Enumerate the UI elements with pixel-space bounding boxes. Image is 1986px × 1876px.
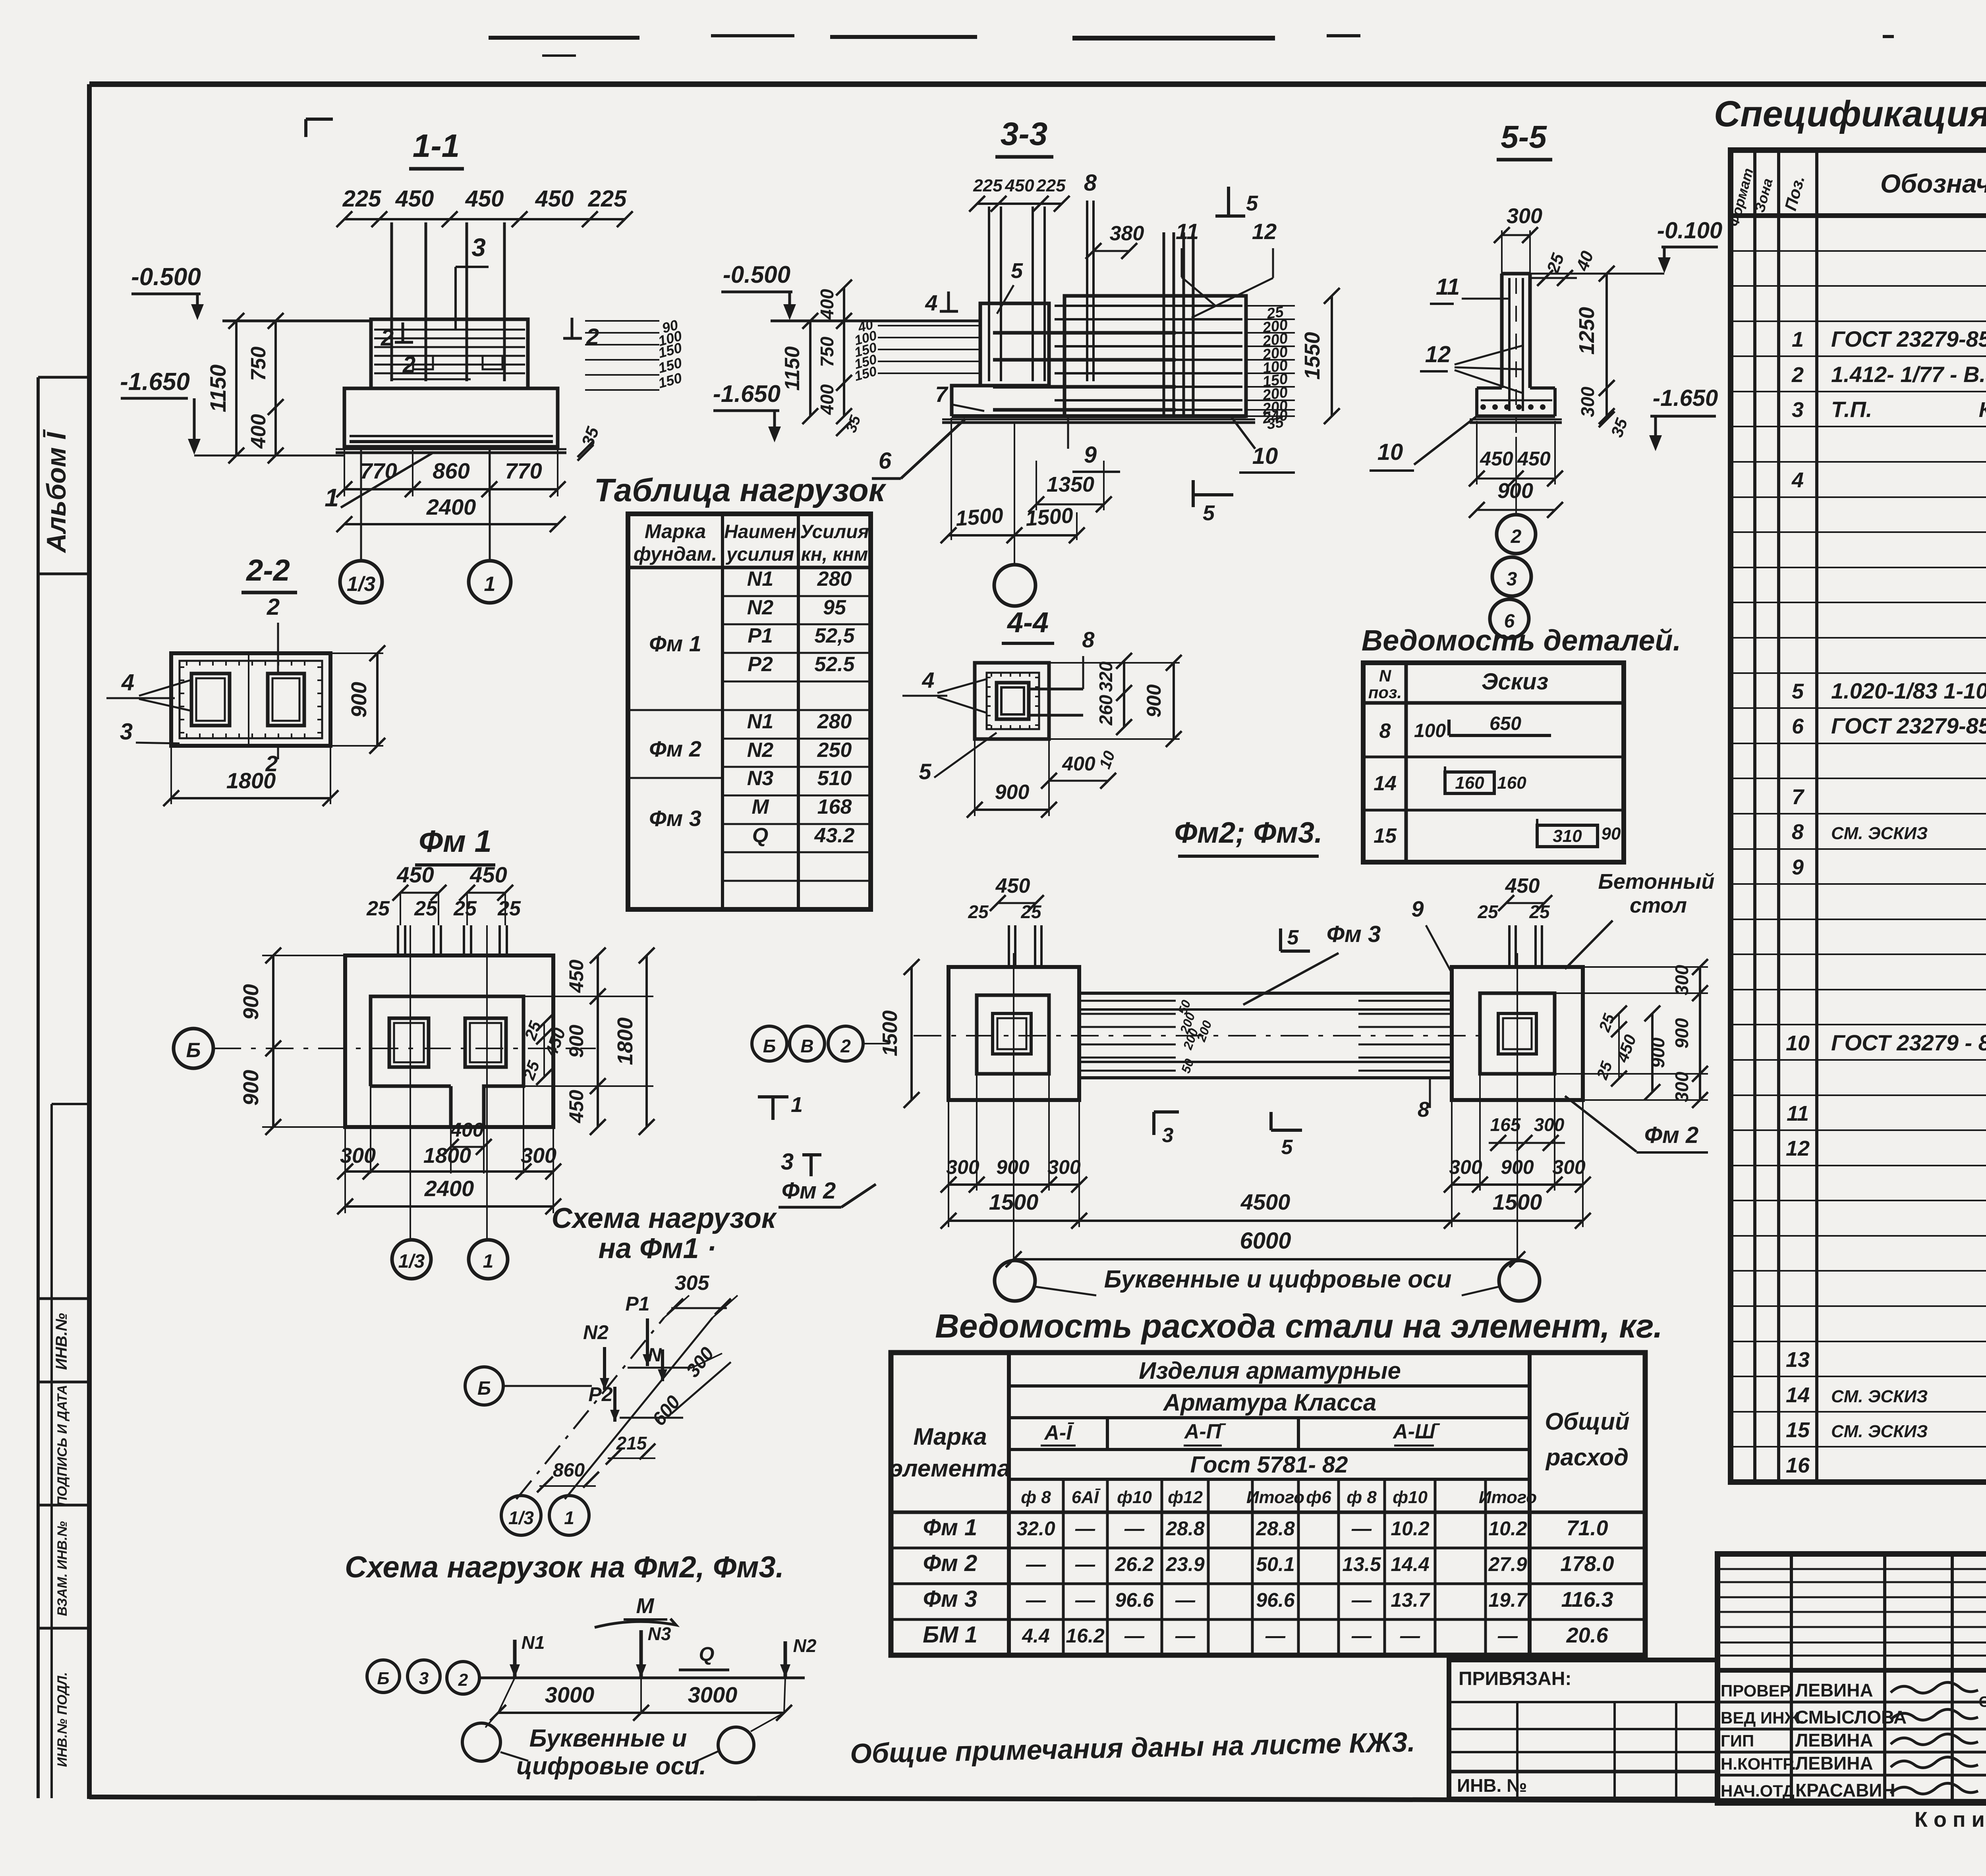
3-3 axis circle	[994, 565, 1036, 606]
2-2 outer slab rect	[171, 653, 330, 746]
Fm2 right foundation inner	[1480, 993, 1555, 1074]
svg-text:3: 3	[1162, 1124, 1174, 1147]
svg-text:2400: 2400	[424, 1176, 474, 1201]
svg-text:9: 9	[1084, 442, 1097, 468]
svg-text:—: —	[1351, 1625, 1372, 1647]
svg-text:300: 300	[340, 1144, 376, 1168]
svg-text:450: 450	[1005, 176, 1034, 195]
svg-text:280: 280	[817, 710, 852, 733]
svg-text:М: М	[636, 1594, 655, 1618]
4-4 core square	[997, 683, 1029, 719]
Fm1 pocket 2	[465, 1018, 506, 1067]
axis circle 1	[469, 561, 511, 603]
svg-text:Фм 2: Фм 2	[923, 1550, 978, 1576]
svg-text:1350: 1350	[1047, 473, 1094, 496]
svg-text:450: 450	[535, 186, 574, 212]
4-4 mesh ticks	[991, 673, 992, 677]
svg-text:14: 14	[1786, 1383, 1810, 1407]
svg-text:225: 225	[588, 186, 627, 212]
3-3 right dim 1550	[1331, 296, 1333, 416]
Fm1 right inner chain 450 900 450	[524, 996, 653, 997]
svg-text:НАЧ.ОТД: НАЧ.ОТД	[1721, 1781, 1795, 1800]
svg-text:ПРОВЕР.: ПРОВЕР.	[1721, 1681, 1793, 1700]
section cut mark 2 (right)	[571, 318, 574, 338]
svg-text:400: 400	[817, 384, 837, 415]
svg-text:N1: N1	[747, 567, 773, 591]
svg-text:50.1: 50.1	[1256, 1553, 1294, 1575]
svg-text:650: 650	[1489, 713, 1521, 734]
svg-text:—: —	[1124, 1517, 1145, 1540]
svg-text:1550: 1550	[1300, 332, 1324, 380]
svg-text:В: В	[800, 1036, 813, 1056]
svg-text:9: 9	[1411, 896, 1424, 921]
svg-text:—: —	[1400, 1625, 1420, 1647]
5-5 footing bars dots	[1480, 404, 1486, 410]
3-3 beam rebar horizontals	[1055, 305, 1242, 307]
4-4 dim 900 right	[1173, 663, 1175, 739]
section mark T3 left of beam	[1152, 1112, 1155, 1135]
3-3 right spacing dims column	[1246, 305, 1295, 307]
svg-text:1150: 1150	[205, 365, 230, 412]
svg-text:225: 225	[1036, 176, 1066, 195]
5-5 axis circle 6	[1490, 599, 1529, 638]
svg-text:1: 1	[1792, 328, 1804, 351]
5-5 prep lines	[1470, 419, 1562, 421]
svg-text:2: 2	[1511, 526, 1522, 547]
left margin stamp column	[37, 377, 40, 1798]
svg-text:Наимен: Наимен	[724, 521, 796, 542]
svg-text:4: 4	[1791, 468, 1804, 492]
svg-text:32.0: 32.0	[1016, 1517, 1055, 1540]
5-5 right dim 300	[1605, 388, 1608, 416]
4-4 dim 900 bottom	[975, 809, 1049, 811]
svg-text:2: 2	[381, 325, 394, 351]
svg-text:300: 300	[1671, 1071, 1692, 1102]
svg-text:10.2: 10.2	[1391, 1517, 1430, 1540]
Fm1 dim 2400	[345, 1205, 553, 1208]
svg-text:ЛЕВИНА: ЛЕВИНА	[1795, 1680, 1873, 1700]
svg-text:1800: 1800	[423, 1144, 471, 1168]
svg-text:—: —	[1351, 1517, 1372, 1540]
svg-text:ф 8: ф 8	[1347, 1488, 1377, 1507]
privyazan block frame	[1449, 1660, 1717, 1799]
svg-text:35: 35	[1265, 414, 1285, 433]
svg-text:25: 25	[1477, 901, 1499, 922]
spec table frame	[1731, 150, 1986, 1482]
axis circle 1/3	[340, 561, 382, 603]
1-1 axis lines to circles	[360, 447, 362, 561]
schema Fm1 axis circle B	[465, 1367, 503, 1405]
Fm2 right dims 300 900 300 vertical	[1583, 966, 1708, 968]
svg-text:3: 3	[781, 1149, 794, 1175]
svg-text:450: 450	[1480, 448, 1513, 470]
svg-text:Бетонный: Бетонный	[1598, 870, 1715, 894]
svg-text:300: 300	[1671, 965, 1692, 995]
svg-text:4-4: 4-4	[1007, 607, 1049, 639]
class cells A-I A-II A-III	[1106, 1418, 1109, 1449]
schema Fm1 slant axis lines	[516, 1318, 664, 1499]
svg-text:Марка: Марка	[913, 1423, 987, 1450]
svg-text:Фм 1: Фм 1	[419, 824, 492, 859]
svg-text:ГОСТ 23279-85: ГОСТ 23279-85	[1831, 326, 1986, 351]
svg-text:3000: 3000	[688, 1682, 738, 1707]
svg-text:ЛЕВИНА: ЛЕВИНА	[1795, 1753, 1873, 1774]
title block frame	[1717, 1554, 1986, 1803]
svg-text:16.2: 16.2	[1066, 1625, 1105, 1647]
svg-text:15: 15	[1374, 824, 1397, 847]
svg-text:Б: Б	[186, 1039, 201, 1062]
4-4 outer square	[975, 663, 1049, 739]
svg-text:N1: N1	[522, 1632, 545, 1653]
svg-text:5: 5	[919, 759, 931, 784]
svg-text:2400: 2400	[426, 494, 476, 519]
svg-text:96.6: 96.6	[1256, 1589, 1295, 1611]
svg-text:5: 5	[1281, 1136, 1293, 1159]
Fm2 plan bottom dims right 300 900 300	[1451, 1100, 1453, 1227]
svg-text:М: М	[752, 795, 769, 818]
3-3 left mesh spacing leaders 40/100/150	[878, 325, 980, 326]
svg-text:900: 900	[1671, 1018, 1692, 1048]
svg-text:305: 305	[675, 1272, 710, 1295]
svg-text:3: 3	[120, 719, 133, 745]
Fm1 horizontal axis dash-dot	[213, 1048, 596, 1049]
svg-text:450: 450	[396, 862, 434, 887]
svg-text:Спецификация монолитных фунд: Спецификация монолитных фундаментов.	[1714, 94, 1986, 134]
schema Fm1 ledge lines	[628, 1367, 692, 1369]
title block mid separator	[1717, 1668, 1986, 1673]
3-3 axis line to circle	[1014, 423, 1015, 565]
2-2 pocket 2	[268, 674, 304, 726]
svg-text:20.6: 20.6	[1566, 1623, 1608, 1647]
svg-text:Обозначение: Обозначение	[1880, 169, 1986, 198]
slab bottom mesh bars	[350, 435, 553, 437]
Fm1 pocket 1	[389, 1018, 429, 1067]
svg-text:8: 8	[1418, 1098, 1430, 1121]
svg-text:15: 15	[1786, 1418, 1810, 1442]
svg-text:43.2: 43.2	[814, 824, 854, 847]
svg-text:на Фм1 ·: на Фм1 ·	[598, 1233, 716, 1264]
diameter sub-columns	[1062, 1479, 1065, 1655]
svg-text:ф10: ф10	[1393, 1488, 1428, 1507]
svg-text:1.412- 1/77 - В.3 -120: 1.412- 1/77 - В.3 -120	[1831, 362, 1986, 387]
right mesh spacing leaders	[585, 320, 659, 322]
svg-text:25: 25	[366, 897, 390, 920]
Fm1 outer slab rect	[345, 955, 553, 1127]
beam axis dash-dot	[914, 1035, 1486, 1036]
signature rows	[1717, 1701, 1986, 1704]
svg-text:Т.П.: Т.П.	[1831, 397, 1872, 422]
svg-text:—: —	[1026, 1553, 1046, 1575]
svg-text:10: 10	[1786, 1031, 1810, 1055]
svg-text:8: 8	[1084, 170, 1097, 196]
svg-text:2: 2	[1791, 363, 1804, 387]
svg-text:5-5: 5-5	[1501, 119, 1547, 154]
svg-text:10.2: 10.2	[1488, 1517, 1527, 1540]
svg-text:4.4: 4.4	[1022, 1625, 1050, 1647]
1-1 top dimension chain 225 450 450 450 225	[344, 218, 625, 220]
svg-text:—: —	[1175, 1625, 1196, 1647]
svg-text:Эскиз: Эскиз	[1482, 669, 1548, 695]
svg-text:250: 250	[817, 739, 852, 762]
Fm2 left foundation inner	[977, 995, 1049, 1074]
2-2 dim 900 right	[330, 652, 383, 654]
svg-text:5: 5	[1011, 259, 1023, 283]
svg-text:кн, кнм: кн, кнм	[801, 544, 868, 565]
svg-text:—: —	[1075, 1553, 1095, 1575]
4-4 dims 320 260	[1123, 661, 1125, 727]
svg-text:16: 16	[1786, 1453, 1810, 1477]
5-5 wall	[1500, 274, 1504, 388]
svg-text:1-1: 1-1	[413, 128, 460, 164]
svg-text:расход: расход	[1545, 1444, 1629, 1471]
ground line left of foundation	[222, 320, 371, 322]
spec table row grid	[1731, 250, 1986, 252]
svg-text:1: 1	[564, 1507, 574, 1528]
svg-text:Q: Q	[699, 1643, 715, 1665]
svg-text:-1.650: -1.650	[1653, 385, 1718, 411]
svg-text:—: —	[1497, 1625, 1518, 1647]
3-3 ground line	[771, 320, 980, 322]
svg-text:11: 11	[1787, 1102, 1809, 1125]
1-1 pedestal body	[371, 319, 528, 388]
svg-text:770: 770	[360, 458, 397, 483]
row lines right two columns	[723, 595, 871, 597]
svg-text:14.4: 14.4	[1391, 1553, 1429, 1575]
3-3 pedestal rebars vertical	[988, 207, 990, 381]
svg-text:6: 6	[1792, 714, 1804, 738]
spec table header row	[1731, 213, 1986, 218]
svg-text:3-3: 3-3	[1001, 116, 1048, 152]
svg-text:2: 2	[458, 1670, 468, 1690]
svg-text:ПРИВЯЗАН:: ПРИВЯЗАН:	[1459, 1668, 1571, 1689]
svg-text:Марка: Марка	[645, 520, 706, 542]
svg-text:6АĪ: 6АĪ	[1072, 1488, 1101, 1507]
svg-text:Фм 3: Фм 3	[923, 1586, 978, 1612]
svg-text:450: 450	[995, 874, 1030, 897]
Fm1 axis circle 1	[469, 1240, 508, 1279]
Fm1 vertical axes to circles	[410, 925, 411, 1240]
svg-text:5: 5	[1287, 926, 1299, 949]
svg-text:4: 4	[925, 290, 937, 315]
svg-text:ИНВ. №: ИНВ. №	[1457, 1775, 1527, 1796]
svg-text:750: 750	[247, 347, 270, 381]
svg-text:КРАСАВИН: КРАСАВИН	[1795, 1780, 1895, 1801]
svg-text:1: 1	[484, 573, 496, 596]
left stamp dividers	[38, 1381, 89, 1384]
svg-text:N2: N2	[747, 739, 774, 762]
svg-text:Н.КОНТР.: Н.КОНТР.	[1721, 1754, 1796, 1773]
svg-text:450: 450	[465, 186, 504, 212]
svg-text:13.7: 13.7	[1391, 1589, 1430, 1611]
dims 1500 4500 1500	[949, 1220, 1583, 1222]
svg-text:4500: 4500	[1240, 1189, 1291, 1214]
svg-text:450: 450	[565, 959, 587, 993]
svg-text:900: 900	[1143, 684, 1165, 718]
svg-text:Б: Б	[377, 1669, 389, 1688]
svg-text:13.5: 13.5	[1342, 1553, 1381, 1575]
svg-text:310: 310	[1553, 826, 1582, 846]
3-3 section mark 5 bottom	[1192, 480, 1195, 507]
svg-text:900: 900	[239, 984, 263, 1020]
svg-text:Итого: Итого	[1246, 1488, 1304, 1507]
3-3 label 10 leader	[1231, 417, 1255, 449]
svg-text:Усилия: Усилия	[800, 521, 869, 542]
svg-text:860: 860	[433, 458, 469, 483]
svg-text:К о п и р о в а л :Л о г и н о: К о п и р о в а л :Л о г и н о в а	[1915, 1808, 1986, 1832]
Fm2 left pocket	[993, 1013, 1031, 1054]
svg-text:—: —	[1075, 1517, 1095, 1540]
sheet frame	[89, 81, 1986, 87]
svg-text:52.5: 52.5	[814, 653, 855, 676]
svg-text:450: 450	[1505, 874, 1540, 897]
svg-text:Гост 5781- 82: Гост 5781- 82	[1190, 1452, 1348, 1478]
svg-text:ВЕД ИНЖ.: ВЕД ИНЖ.	[1721, 1708, 1804, 1727]
svg-text:320: 320	[1095, 661, 1116, 692]
svg-text:Фм 1: Фм 1	[649, 631, 701, 656]
svg-text:300: 300	[521, 1144, 556, 1168]
3-3 big beam block	[1064, 296, 1246, 416]
svg-text:7: 7	[1792, 785, 1805, 809]
svg-text:ИНВ.№ ПОДЛ.: ИНВ.№ ПОДЛ.	[55, 1672, 70, 1767]
svg-text:N2: N2	[583, 1321, 609, 1343]
2-2 mesh tick marks	[186, 661, 187, 666]
svg-text:5: 5	[1792, 679, 1804, 703]
marka column dividers	[628, 709, 723, 711]
corner bracket mark top-left	[304, 119, 307, 137]
svg-text:3: 3	[471, 233, 486, 262]
svg-text:1800: 1800	[613, 1017, 637, 1065]
5-5 wall rebar verticals	[1508, 278, 1511, 411]
Fm2 left foundation outer	[949, 967, 1079, 1100]
mesh hooks in pedestal	[413, 356, 433, 369]
svg-text:5: 5	[1203, 501, 1215, 525]
1-1 bottom dim chain 770 860 770	[344, 447, 345, 496]
svg-text:96.6: 96.6	[1115, 1589, 1154, 1611]
svg-text:3: 3	[1507, 569, 1517, 590]
Fm2 plan bottom dims left 300 900 300	[948, 1100, 949, 1227]
2-2 mid axis line	[248, 653, 249, 746]
svg-text:380: 380	[1110, 222, 1144, 245]
svg-text:300: 300	[1449, 1156, 1482, 1178]
section mark 5 top	[1227, 187, 1230, 216]
svg-text:300: 300	[1577, 386, 1598, 417]
svg-text:ф6: ф6	[1306, 1488, 1331, 1507]
spec table column lines	[1753, 150, 1756, 1482]
svg-text:поз.: поз.	[1368, 683, 1402, 702]
3-3 beam rebar hook bars	[993, 331, 1176, 335]
svg-text:510: 510	[817, 767, 852, 790]
svg-text:25: 25	[414, 897, 438, 920]
svg-text:450: 450	[1517, 448, 1551, 470]
svg-text:300: 300	[1552, 1156, 1586, 1178]
Fm1 dowel bars	[397, 925, 399, 955]
svg-text:900: 900	[995, 781, 1030, 804]
svg-text:Р1: Р1	[625, 1293, 649, 1315]
svg-text:10: 10	[1252, 443, 1278, 469]
dim 6000	[1014, 1258, 1517, 1260]
schema Fm1 axis circle 1/3	[501, 1496, 541, 1535]
svg-text:СМ. ЭСКИЗ: СМ. ЭСКИЗ	[1831, 1387, 1928, 1406]
svg-text:ГИП: ГИП	[1721, 1731, 1754, 1750]
svg-text:1500: 1500	[955, 504, 1004, 531]
svg-text:ГОСТ 23279-85: ГОСТ 23279-85	[1831, 713, 1986, 738]
svg-text:Буквенные и: Буквенные и	[529, 1725, 687, 1752]
svg-text:7: 7	[935, 382, 949, 407]
steel table marka column	[1007, 1353, 1011, 1655]
3-3 left chain 400 750 400 35	[843, 288, 845, 416]
svg-text:Р2: Р2	[588, 1383, 612, 1405]
svg-text:1: 1	[325, 483, 339, 512]
svg-text:Р1: Р1	[748, 624, 773, 647]
svg-text:ф10: ф10	[1117, 1488, 1152, 1507]
steel table obschiy rashod column	[1528, 1353, 1532, 1655]
svg-text:ГОСТ 23279 - 85: ГОСТ 23279 - 85	[1831, 1030, 1986, 1055]
svg-text:ИНВ.№: ИНВ.№	[53, 1313, 70, 1370]
svg-text:—: —	[1265, 1625, 1286, 1647]
svg-text:25: 25	[497, 897, 521, 920]
section mark T1	[758, 1095, 788, 1098]
3-3 top dims 225 450 225	[977, 203, 1062, 205]
lean concrete prep lines	[336, 448, 566, 450]
svg-text:3: 3	[1792, 398, 1804, 422]
4-4 mesh square	[987, 673, 1039, 729]
svg-text:-0.500: -0.500	[723, 261, 790, 288]
section mark 5 with Fm3 label	[1279, 928, 1282, 951]
axis circles b 3 2	[367, 1660, 400, 1693]
svg-text:фундам.: фундам.	[634, 543, 717, 565]
schema Fm2 axis circle right	[718, 1727, 754, 1763]
svg-text:10: 10	[1377, 439, 1403, 465]
svg-text:3: 3	[419, 1669, 429, 1688]
svg-text:Схема нагрузок на Фм2, Фм3.: Схема нагрузок на Фм2, Фм3.	[345, 1550, 784, 1584]
svg-text:1/3: 1/3	[398, 1251, 425, 1272]
svg-text:ОЧИСТКИ ВОДЫ ПРОИЗВОДИТЕЛЬНОСЬ: ОЧИСТКИ ВОДЫ ПРОИЗВОДИТЕЛЬНОСЬЮ	[1979, 1694, 1986, 1710]
svg-text:N2: N2	[793, 1635, 817, 1656]
svg-text:Фм2; Фм3.: Фм2; Фм3.	[1174, 816, 1322, 849]
svg-text:52,5: 52,5	[814, 624, 855, 647]
title block top-left thin rows	[1717, 1568, 1986, 1570]
svg-text:1.020-1/83 1-10.3.0-01: 1.020-1/83 1-10.3.0-01	[1831, 678, 1986, 703]
force N2	[784, 1641, 787, 1678]
schema Fm2 dim 3000 3000	[498, 1712, 784, 1714]
svg-text:Изделия арматурные: Изделия арматурные	[1139, 1357, 1401, 1384]
svg-text:400: 400	[450, 1119, 484, 1141]
1-1 dim 2400	[344, 523, 558, 525]
steel table frame	[891, 1353, 1645, 1655]
svg-text:А-П̄: А-П̄	[1184, 1420, 1226, 1443]
svg-text:2-2: 2-2	[245, 554, 290, 587]
svg-text:А-Ш̄: А-Ш̄	[1392, 1420, 1440, 1443]
svg-text:Итого: Итого	[1479, 1488, 1537, 1507]
svg-text:А-Ī: А-Ī	[1043, 1421, 1074, 1444]
svg-text:3000: 3000	[545, 1682, 595, 1707]
svg-text:450: 450	[469, 862, 507, 887]
svg-text:СМ. ЭСКИЗ: СМ. ЭСКИЗ	[1831, 824, 1928, 843]
force N3	[639, 1630, 643, 1678]
svg-text:300: 300	[1534, 1114, 1565, 1135]
svg-text:N3: N3	[747, 767, 774, 790]
svg-text:400: 400	[817, 289, 837, 320]
privyazan columns	[1516, 1702, 1518, 1799]
svg-text:300: 300	[1047, 1156, 1081, 1178]
Fm2 right foundation outer	[1452, 967, 1583, 1100]
2-2 inner mesh border	[180, 661, 322, 738]
svg-text:860: 860	[553, 1460, 585, 1481]
svg-text:19.7: 19.7	[1488, 1589, 1528, 1611]
svg-text:-1.650: -1.650	[713, 380, 780, 407]
svg-text:1500: 1500	[879, 1010, 902, 1056]
3-3 prep lines	[942, 419, 1255, 421]
